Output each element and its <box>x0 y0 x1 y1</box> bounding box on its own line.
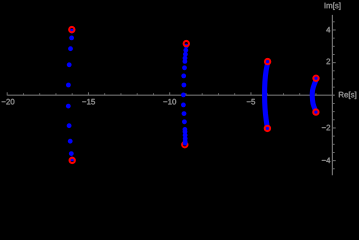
x-axis minor ticks <box>23 93 316 95</box>
pole cluster 3 red end ring bottom <box>265 126 270 131</box>
axis label Im[s] <box>325 2 341 9</box>
pole cluster 4 red end ring bottom <box>313 109 318 114</box>
y-axis (Im axis) <box>331 15 333 175</box>
y tick label 2 <box>327 59 331 65</box>
axis label Re[s] <box>339 92 356 99</box>
x tick label -15 <box>82 99 95 105</box>
pole cluster 2 dense upper chain (Re ~ -9) <box>183 44 189 64</box>
x tick label -10 <box>163 99 176 105</box>
pole cluster 3 red end ring top <box>265 59 270 64</box>
y tick label -4 <box>322 158 330 163</box>
x-axis (Re axis) <box>7 94 334 96</box>
pole cluster 3 blue chain (Re ~ -4.2) <box>265 62 268 127</box>
pole cluster 2 dense lower chain <box>183 129 188 145</box>
y tick label -2 <box>322 125 330 131</box>
y-axis minor ticks <box>332 22 335 169</box>
y tick label 4 <box>326 27 330 32</box>
pole cluster 2 red end ring bottom <box>182 142 187 147</box>
pole cluster 2 blue dots <box>181 65 187 131</box>
y-axis major ticks <box>332 30 336 161</box>
pole cluster 1 blue dots (Re ~ -16) <box>66 29 75 162</box>
x tick label -5 <box>247 99 255 105</box>
x-axis major ticks <box>7 92 251 95</box>
pole cluster 1 red end ring top <box>69 27 74 32</box>
x tick label -20 <box>2 99 15 105</box>
pole cluster 1 red end ring bottom <box>70 158 75 163</box>
pole cluster 2 red end ring top <box>184 41 189 46</box>
pole cluster 4 red end ring top <box>313 76 318 81</box>
pole cluster 4 blue chain (Re ~ -1.2) <box>312 79 316 111</box>
